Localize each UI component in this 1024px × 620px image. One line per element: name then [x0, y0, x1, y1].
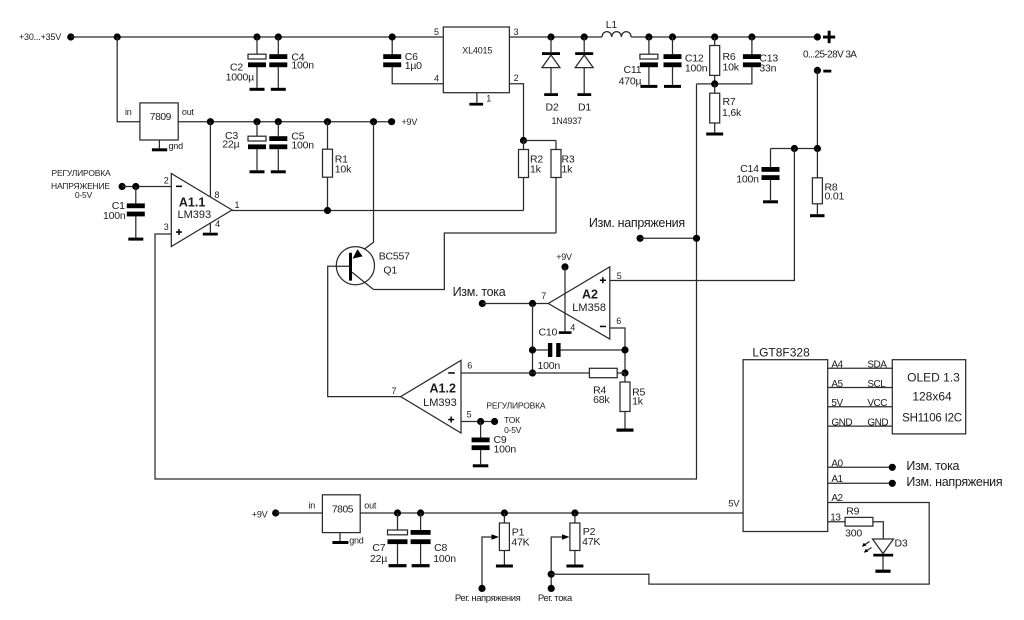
svg-text:3: 3 [514, 27, 519, 37]
node R4 R5 junction [621, 369, 628, 376]
diode D1 1N4937 [575, 37, 593, 114]
node C11 junction [645, 33, 652, 40]
capacitor C10 100n feedback [533, 327, 626, 373]
label Рег. напряжения [455, 593, 521, 604]
svg-text:A2: A2 [831, 493, 843, 504]
label output voltage 0...25-28V 3A [803, 49, 857, 60]
svg-text:C11: C11 [624, 64, 642, 76]
wire minus terminal to shunt node [816, 70, 818, 148]
svg-text:3: 3 [164, 222, 169, 232]
svg-text:47K: 47K [582, 536, 600, 548]
resistor R4 68k [589, 368, 625, 406]
IC U3 LGT8F328 [743, 346, 852, 532]
node P2 junction [571, 509, 578, 516]
svg-text:VCC: VCC [867, 398, 887, 409]
wire A1.2 pin5 [461, 421, 495, 423]
svg-text:100n: 100n [433, 553, 456, 565]
svg-text:R9: R9 [846, 506, 859, 518]
svg-text:6: 6 [467, 361, 472, 371]
svg-text:68k: 68k [593, 394, 610, 406]
svg-text:РЕГУЛИРОВКА: РЕГУЛИРОВКА [52, 168, 111, 178]
regulator 7809 U-7809 [125, 103, 195, 151]
svg-text:0-5V: 0-5V [504, 425, 522, 435]
svg-text:7: 7 [392, 386, 397, 396]
svg-text:22µ: 22µ [222, 139, 239, 151]
node +9V rail junction emitter [370, 118, 377, 125]
wire A1 stub [828, 482, 893, 484]
svg-text:C10: C10 [539, 327, 558, 339]
svg-text:7805: 7805 [332, 505, 354, 516]
ground 7805 gnd [332, 533, 348, 544]
svg-text:5: 5 [467, 410, 472, 420]
svg-text:A5: A5 [831, 379, 843, 390]
node voltage sense junction [693, 235, 700, 242]
ground 7809 gnd [152, 140, 167, 151]
wire A2 pin6 down [610, 328, 625, 373]
capacitor C9 100n [472, 422, 517, 468]
resistor R6 10k [710, 37, 740, 84]
IC U2 XL4015 [434, 27, 519, 104]
svg-text:1,6k: 1,6k [722, 107, 742, 119]
svg-text:A1.1: A1.1 [179, 196, 205, 210]
capacitor C13 33n [697, 37, 779, 84]
node A0 terminal [889, 464, 896, 471]
node +9V rail junction C5 [275, 118, 282, 125]
svg-text:Изм. напряжения: Изм. напряжения [589, 216, 685, 230]
node C13 junction [748, 33, 755, 40]
svg-text:LM393: LM393 [423, 397, 457, 409]
svg-text:1µ0: 1µ0 [405, 60, 422, 72]
node current sense input terminal [479, 300, 486, 307]
capacitor C14 100n [736, 149, 779, 204]
resistor R3 1k [551, 141, 575, 234]
resistor R1 10k [323, 122, 353, 211]
wire VCC link [828, 406, 893, 408]
node C10 left wire junction [529, 346, 536, 353]
label Рег. тока [538, 593, 573, 604]
svg-text:100n: 100n [736, 173, 759, 185]
capacitor C3 22µ electrolytic [222, 122, 266, 174]
node minus output terminal [814, 67, 831, 74]
resistor R9 300 [845, 506, 873, 540]
svg-text:100n: 100n [538, 360, 561, 372]
wire 5V rail [360, 512, 743, 514]
svg-text:470µ: 470µ [619, 76, 642, 88]
svg-text:gnd: gnd [349, 536, 364, 546]
svg-text:4: 4 [215, 219, 220, 229]
svg-text:1: 1 [235, 200, 240, 210]
svg-text:OLED 1.3: OLED 1.3 [907, 371, 960, 385]
node C2 top junction [253, 33, 260, 40]
svg-text:BC557: BC557 [379, 250, 410, 262]
node P2 wiper junction [548, 571, 555, 578]
node P1 junction [501, 509, 508, 516]
svg-text:in: in [309, 501, 316, 511]
svg-text:Изм. тока: Изм. тока [906, 459, 959, 473]
wire SDA link [828, 367, 893, 369]
svg-text:10k: 10k [723, 62, 740, 74]
resistor R2 1k [519, 141, 544, 211]
svg-text:ТОК: ТОК [504, 415, 520, 425]
svg-text:0...25-28V 3A: 0...25-28V 3A [803, 49, 857, 60]
LED D3 [862, 538, 908, 573]
svg-text:100n: 100n [291, 139, 314, 151]
resistor R7 1.6k [706, 84, 742, 136]
capacitor C1 100n [103, 187, 145, 241]
op-amp A1.2 LM393 [392, 360, 473, 433]
wire A1.2 pin6 to R4 [461, 372, 589, 374]
node A1.2 pin6 junction [529, 369, 536, 376]
svg-text:8: 8 [214, 190, 219, 200]
capacitor C4 100n [269, 37, 314, 91]
wire R2 R3 top link [524, 140, 557, 142]
capacitor C2 1000µ electrolytic [226, 37, 266, 91]
node P1 wiper terminal [478, 585, 485, 592]
wire XL4015 pin2 to divider [509, 84, 523, 141]
svg-text:1N4937: 1N4937 [552, 116, 583, 126]
svg-text:out: out [364, 501, 377, 511]
capacitor C12 100n [664, 37, 708, 88]
svg-text:in: in [125, 107, 132, 117]
svg-text:+9V: +9V [556, 252, 572, 262]
svg-text:100n: 100n [291, 59, 314, 71]
wire A1.1 pin8 to +9V rail [209, 122, 211, 197]
label 1N4937 [552, 116, 583, 126]
svg-text:1000µ: 1000µ [226, 72, 255, 84]
svg-text:Q1: Q1 [383, 264, 397, 276]
svg-text:5: 5 [434, 27, 439, 37]
svg-text:7: 7 [541, 291, 546, 301]
svg-text:A1.2: A1.2 [430, 382, 456, 396]
svg-text:SCL: SCL [867, 379, 886, 390]
label РЕГУЛИРОВКА ТОК 0-5V [486, 401, 545, 435]
svg-text:5: 5 [617, 271, 622, 281]
svg-text:+30...+35V: +30...+35V [19, 32, 61, 42]
svg-text:7809: 7809 [150, 112, 172, 123]
wire pin2 input A1.1 [122, 186, 171, 188]
svg-text:300: 300 [845, 528, 862, 540]
svg-text:GND: GND [867, 417, 888, 428]
svg-text:2: 2 [164, 176, 169, 186]
svg-text:LM393: LM393 [178, 209, 212, 221]
node C12 junction [669, 33, 676, 40]
wire SCL link [828, 387, 893, 389]
regulator 7805 U-7805 [309, 495, 377, 546]
potentiometer P1 47K [496, 513, 530, 568]
node +9V rail junction C3 [253, 118, 260, 125]
svg-text:Изм. тока: Изм. тока [453, 285, 506, 299]
op-amp A2 LM358 [541, 267, 621, 339]
node C1 junction [132, 183, 139, 190]
node plus output terminal [814, 33, 821, 40]
svg-text:Рег. напряжения: Рег. напряжения [455, 593, 521, 604]
wire A1.1 output pin1 [232, 210, 524, 212]
node R6 junction [711, 33, 718, 40]
node C4 top junction [275, 33, 282, 40]
svg-text:33n: 33n [759, 63, 776, 75]
node C10 left junction [529, 300, 536, 307]
node A2 +9V terminal [556, 252, 572, 271]
svg-text:LM358: LM358 [572, 302, 606, 314]
wire R3 bottom to collector [374, 233, 557, 290]
capacitor C5 100n [269, 122, 314, 174]
wire GND link [828, 425, 893, 427]
svg-text:4: 4 [434, 73, 439, 83]
node D1 junction [581, 33, 588, 40]
ground XL4015 pin1 [469, 93, 483, 106]
wire A0 stub [828, 466, 893, 468]
wire R9 to D3 [873, 522, 883, 539]
node R2 R3 top junction [520, 137, 527, 144]
capacitor C6 1µ0 [383, 37, 443, 84]
svg-text:L1: L1 [606, 19, 618, 31]
label Изм. напряжения right [906, 475, 1002, 489]
svg-text:6: 6 [616, 316, 621, 326]
wire shunt node horizontal [771, 148, 818, 150]
svg-text:D3: D3 [895, 538, 908, 550]
node D2 junction [547, 33, 554, 40]
wire Q1 base from A1.2 [328, 266, 401, 396]
node +30...+35V input terminal [19, 32, 74, 42]
svg-text:SH1106 I2C: SH1106 I2C [902, 413, 962, 425]
wire P2 wiper to A2 pin of MCU [551, 503, 929, 585]
svg-text:100n: 100n [103, 210, 126, 222]
svg-text:0.01: 0.01 [825, 191, 845, 203]
diode D2 1N4937 [542, 37, 560, 114]
wire P1 wiper [482, 534, 499, 588]
svg-text:A4: A4 [831, 360, 843, 371]
resistor R5 1k [617, 373, 646, 432]
wire A1.1 pin3 feedback loop [155, 84, 697, 479]
capacitor C7 22µ electrolytic [370, 513, 408, 567]
wire A2 pin7 input [482, 303, 548, 305]
node +9V rail junction R1 [324, 118, 331, 125]
wire C10 link vertical [532, 304, 534, 374]
wire 7809 input drop [117, 37, 140, 122]
svg-text:47K: 47K [511, 536, 529, 548]
label Изм. тока right [906, 459, 959, 473]
svg-text:+9V: +9V [252, 510, 268, 520]
node R1 output junction [324, 207, 331, 214]
label РЕГУЛИРОВКА НАПРЯЖЕНИЕ 0-5V [51, 168, 111, 200]
label Изм. напряжения middle [589, 216, 685, 230]
node current set terminal [491, 418, 498, 425]
node +9V bottom terminal [252, 509, 280, 519]
svg-text:1k: 1k [632, 396, 644, 408]
svg-text:128x64: 128x64 [912, 390, 952, 404]
ground A1.1 pin4 [203, 223, 218, 236]
node C8 junction [417, 509, 424, 516]
wire top rail from input to XL4015 pin 5 [71, 36, 444, 38]
label plus symbol [823, 31, 835, 44]
node shunt R8 junction [814, 145, 821, 152]
transistor Q1 BC557 PNP [336, 247, 410, 290]
node C9 junction [477, 418, 484, 425]
op-amp A1.1 LM393 [164, 174, 240, 247]
svg-text:D1: D1 [578, 102, 591, 114]
node +9V rail junction pin8 [207, 118, 214, 125]
svg-text:1k: 1k [530, 164, 542, 176]
svg-text:Изм. напряжения: Изм. напряжения [906, 475, 1002, 489]
svg-text:Рег. тока: Рег. тока [538, 593, 573, 604]
svg-text:GND: GND [831, 417, 852, 428]
svg-text:5V: 5V [728, 498, 740, 509]
svg-text:XL4015: XL4015 [462, 46, 492, 56]
svg-text:РЕГУЛИРОВКА: РЕГУЛИРОВКА [486, 401, 545, 411]
wire emitter to +9V rail [352, 122, 374, 259]
svg-text:1k: 1k [562, 164, 574, 176]
svg-text:100n: 100n [494, 444, 517, 456]
wire +9V rail from 7809 out [178, 121, 391, 123]
node voltage sense terminal [637, 235, 644, 242]
node voltage set input terminal [119, 183, 126, 190]
label Изм. тока [453, 285, 506, 299]
resistor R8 0.01 shunt [810, 149, 844, 218]
node C6 top junction [389, 33, 396, 40]
svg-text:LGT8F328: LGT8F328 [752, 346, 810, 360]
capacitor C11 470µ electrolytic [619, 37, 658, 88]
wire A2 pin5 to shunt sense [610, 149, 795, 281]
node junction top rail to 7809 [114, 33, 121, 40]
wire A2 power pin4 [559, 267, 572, 334]
svg-text:SDA: SDA [867, 360, 887, 371]
svg-text:2: 2 [514, 73, 519, 83]
node A1 terminal [889, 480, 896, 487]
svg-text:+9V: +9V [402, 117, 418, 127]
svg-text:10k: 10k [335, 163, 352, 175]
inductor L1 [602, 19, 631, 37]
label 5V [728, 498, 740, 509]
node C10 right wire junction [621, 346, 628, 353]
wire 7805 input [276, 512, 323, 514]
svg-text:A2: A2 [582, 287, 598, 301]
capacitor C8 100n [411, 513, 457, 567]
potentiometer P2 47K [566, 513, 600, 568]
svg-text:1: 1 [486, 93, 491, 103]
node R6 R7 divider junction [711, 80, 718, 87]
svg-text:100n: 100n [685, 63, 708, 75]
svg-text:5V: 5V [831, 398, 843, 409]
wire XL4015 pin3 to L1 [509, 36, 602, 38]
wire L1 to plus terminal [631, 36, 817, 38]
node +9V terminal [388, 117, 417, 127]
node P2 wiper terminal [548, 585, 555, 592]
node C7 junction [394, 509, 401, 516]
svg-text:22µ: 22µ [370, 553, 387, 565]
node shunt sense junction [791, 145, 798, 152]
svg-text:gnd: gnd [169, 141, 184, 151]
svg-text:0-5V: 0-5V [75, 190, 93, 200]
svg-text:4: 4 [570, 323, 575, 333]
wire P2 wiper [551, 534, 569, 588]
wire voltage sense stub [640, 237, 696, 239]
svg-text:D2: D2 [546, 102, 559, 114]
display OLED 1.3 128x64 SH1106 I2C [867, 360, 965, 434]
wire pin13 to R9 [828, 521, 845, 523]
svg-text:out: out [182, 107, 195, 117]
